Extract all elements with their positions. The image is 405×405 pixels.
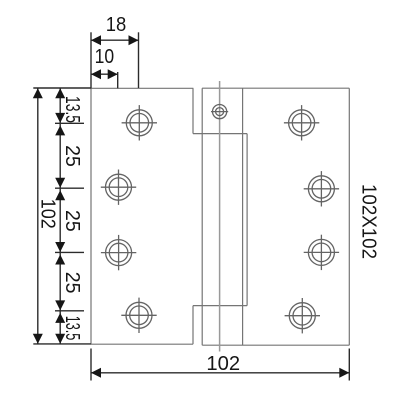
svg-text:25: 25	[61, 272, 83, 294]
svg-text:25: 25	[61, 210, 83, 232]
svg-text:13.5: 13.5	[61, 316, 83, 341]
svg-text:102X102: 102X102	[358, 184, 380, 259]
svg-text:25: 25	[61, 145, 83, 167]
svg-text:18: 18	[106, 14, 127, 36]
svg-text:10: 10	[95, 46, 115, 68]
svg-text:102: 102	[37, 199, 59, 229]
svg-text:102: 102	[206, 353, 240, 375]
svg-text:13.5: 13.5	[61, 96, 83, 123]
